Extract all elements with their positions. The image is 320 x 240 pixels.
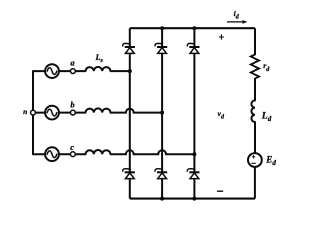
wire left neutral bus [32,71,34,154]
diode D5 top leg 3 [187,43,199,53]
diode D3 top leg 2 [155,43,167,53]
wire load branch upper [254,28,256,54]
wire leg 3 [193,28,195,198]
junction top rail leg 2 [160,26,164,30]
diode D1 top leg 1 [123,43,135,53]
diode D4 bottom leg 1 [123,169,135,179]
inductor Ls phase a [86,67,111,71]
node c [71,152,76,157]
node n [31,110,36,115]
resistor rd [251,55,259,79]
junction top rail leg 3 [192,26,196,30]
inductor Ls phase b [86,108,111,112]
junction phase c / leg 3 [192,152,196,156]
wire phase a row [33,70,130,72]
svg-text:c: c [70,142,74,152]
inductor Ld [251,100,255,122]
ac source Vc [45,147,59,161]
wire top rail [130,27,255,29]
dc source Ed [248,153,262,167]
arrow id [227,20,247,24]
svg-text:n: n [23,107,27,116]
node b [71,110,76,115]
junction bottom rail leg 3 [192,197,196,201]
diode D6 bottom leg 2 [155,169,167,179]
wire leg 2 [161,28,163,198]
wire phase b row with hop over leg 1 [33,109,162,113]
ac source Va [45,64,59,78]
wire bottom rail [130,198,255,200]
wire between rd and Ld [254,79,256,101]
junction bottom rail leg 2 [160,197,164,201]
node a [71,69,76,74]
wire load branch lower [254,167,256,199]
junction phase a / leg 1 [128,69,132,73]
minus terminal vd [218,190,223,192]
ac source Vb [45,106,59,120]
wire leg 1 [129,28,131,198]
svg-text:b: b [70,99,74,109]
diode D2 bottom leg 3 [187,169,199,179]
wire phase c row with hops over legs 1 and 2 [33,150,194,154]
wire between Ld and Ed [254,122,256,153]
junction phase b / leg 2 [160,111,164,115]
inductor Ls phase c [86,150,111,154]
plus terminal vd [219,35,223,39]
